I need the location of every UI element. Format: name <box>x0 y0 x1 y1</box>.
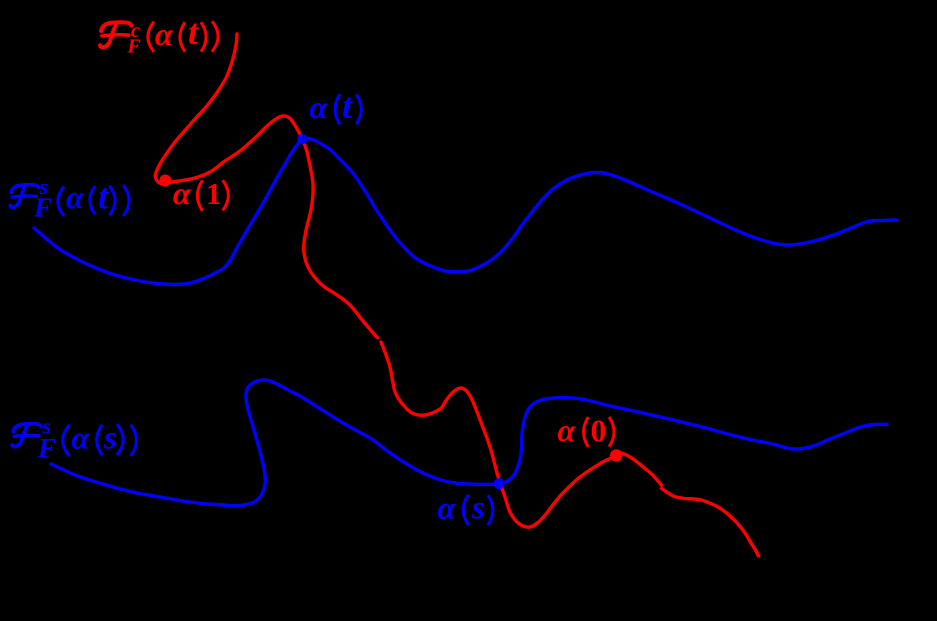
svg-text:t: t <box>98 177 109 217</box>
svg-text:s: s <box>103 421 117 457</box>
svg-text:α: α <box>72 420 91 456</box>
svg-text:α: α <box>155 16 174 52</box>
svg-text:α: α <box>66 179 85 215</box>
label alpha(t) blue <box>310 86 362 126</box>
point alpha(s) blue dot <box>494 478 505 489</box>
label alpha(s) blue <box>438 490 493 527</box>
svg-text:1: 1 <box>206 176 222 211</box>
label F^s_F(alpha(s)) blue left lower <box>12 413 136 462</box>
red curve F^c_F segment 1 <box>155 34 377 338</box>
svg-text:F: F <box>33 193 52 223</box>
red curve segment 3 <box>662 489 759 557</box>
svg-text:α: α <box>173 175 192 211</box>
svg-text:t: t <box>188 12 199 52</box>
svg-text:F: F <box>127 36 142 58</box>
point alpha(0) red dot <box>610 449 622 461</box>
svg-text:t: t <box>342 86 353 126</box>
label F^s_F(alpha(t)) blue left upper <box>10 174 129 223</box>
svg-text:α: α <box>310 89 329 125</box>
point alpha(1) red dot <box>159 175 171 187</box>
label alpha(0) red <box>558 412 615 448</box>
point alpha(t) blue dot <box>297 134 307 144</box>
svg-text:F: F <box>37 433 56 463</box>
curve F^s_F(alpha(s)) lower blue <box>51 380 887 505</box>
curve F^s_F(alpha(t)) upper blue <box>34 138 897 284</box>
svg-text:α: α <box>438 490 457 526</box>
svg-text:α: α <box>558 412 577 448</box>
svg-text:s: s <box>471 491 485 527</box>
svg-text:0: 0 <box>591 413 607 449</box>
red curve segment 2 <box>381 342 662 527</box>
label alpha(1) red <box>173 175 228 211</box>
label F^c_F(alpha(t)) red <box>100 12 218 58</box>
